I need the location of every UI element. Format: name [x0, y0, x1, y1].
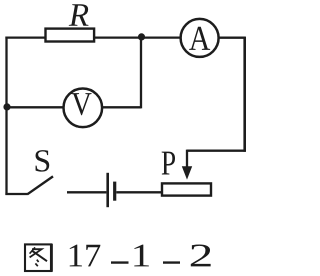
voltmeter U-V — [64, 89, 103, 128]
node junction on left rail — [3, 103, 10, 110]
label S — [36, 150, 50, 172]
wire: voltmeter branch right — [102, 106, 141, 108]
wire: horizontal run to rheostat slider — [187, 150, 246, 152]
battery cell: short negative plate — [113, 182, 116, 201]
wire: top-left segment from left rail to resistor — [5, 36, 45, 38]
switch S: hinge stub — [5, 193, 27, 195]
node junction at voltmeter tap (top) — [138, 33, 145, 40]
rheostat P body — [162, 183, 211, 195]
wire: switch contact to battery — [67, 191, 106, 193]
battery cell: long positive plate — [106, 173, 109, 207]
ammeter U-A — [181, 19, 219, 57]
resistor R — [46, 29, 95, 42]
wire: battery to rheostat — [116, 191, 162, 193]
wire: top segment from resistor to junction A-node — [95, 36, 181, 38]
rheostat slider arrowhead — [182, 166, 192, 179]
wire: right vertical rail — [243, 37, 246, 152]
wire: top segment from ammeter to right rail — [218, 37, 245, 39]
switch S: open blade — [27, 176, 53, 194]
label R — [69, 4, 89, 26]
label P — [162, 152, 175, 175]
wire: slider drop wire — [186, 150, 188, 168]
caption dash 2 — [163, 261, 180, 263]
caption glyph 图 (drawn) — [25, 244, 51, 272]
wire: left vertical rail — [5, 37, 7, 195]
wire: voltmeter branch vertical up to junction — [140, 38, 142, 109]
wire: voltmeter branch left — [7, 106, 64, 108]
caption text 17 - 1 - 2 — [70, 245, 211, 267]
caption dash 1 — [111, 261, 129, 263]
